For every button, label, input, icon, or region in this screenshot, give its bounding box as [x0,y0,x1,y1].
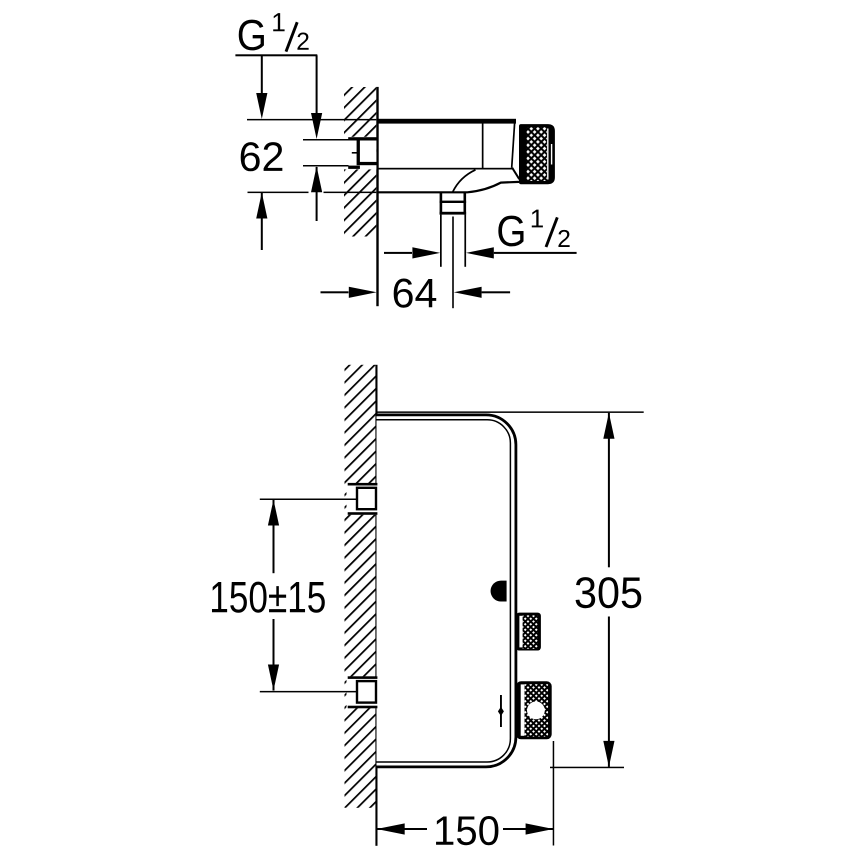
G1/2 top arrow stem 1 [261,55,263,93]
upper bracket box [357,488,376,509]
62 dim bottom extension line [303,165,349,167]
lower mounting bracket white mask [347,676,378,708]
62 arrowhead up [311,166,322,192]
body top bar [379,119,517,124]
150±15 top extension line [260,499,357,501]
G1/2 pipe dim: right arrowhead (left) [466,247,494,258]
G1/2 pipe dim: left arrow stem [384,252,412,254]
wall union bracket (top view) [340,137,377,170]
knob knurl area [527,127,547,181]
lower bracket box [357,681,376,703]
G1/2 top arrowhead 2 (down) [311,113,322,139]
wall hatching (top view) [344,87,376,237]
upper mounting bracket white mask [347,483,378,515]
305 top extension line [377,411,644,413]
64 dim: left arrow stem [321,291,349,293]
wall line (lower view) [375,365,377,846]
150 dim line right segment [503,828,553,830]
dimension text 62 [241,142,283,171]
extension line of body bottom (right part) [324,192,377,194]
G1/2 top arrowhead 1 (down) [256,93,267,119]
body lower face line [379,168,514,170]
150 arrowhead left [377,823,405,834]
bracket top flange [348,137,377,140]
extension line of body top [247,119,376,121]
wall hatching (lower view) [345,365,376,808]
64 dim: left arrowhead (right, at wall) [349,287,377,298]
G1/2 bottom label: superscript 1 [532,210,543,228]
64 dim: right arrowhead (left, at centerline) [454,287,482,298]
305 dim line upper segment [608,413,610,568]
outlet nut right wall [464,193,467,215]
mini arrow mark stem [500,695,502,727]
305 bottom extension line [550,767,624,769]
150 arrowhead right [526,823,554,834]
305 arrowhead down [603,741,614,767]
64 dim: right stem [482,291,511,293]
body bottom outline [379,182,520,192]
lower knob button circle [527,702,545,720]
outlet nut left wall [440,193,443,215]
G1/2 top label: subscript 2 [297,33,308,50]
upper bracket top flange [348,483,378,486]
G1/2 top label: fraction slash [286,22,297,51]
hose pipe left line [440,215,442,267]
lower bracket top flange [348,676,378,679]
bracket bottom bar right [357,162,377,165]
wall line (top view) [376,87,378,306]
62 arrow up (stem below bottom line) [316,167,318,221]
extension line of body bottom (left of arrow gap) [248,192,309,194]
305 arrowhead up [603,413,614,439]
dimension text 150±15 [212,582,325,613]
G1/2 top label: superscript 1 [273,13,284,31]
body front round edge curve [453,170,476,192]
dimension text 305 [576,577,642,608]
outlet mark (black D) [491,581,507,602]
G1/2 bottom label: G [498,216,523,247]
outlet nut mid bar [440,201,467,203]
G1/2 pipe dim: left arrowhead (right) [412,247,440,258]
dimension text 150 [436,816,498,845]
plate outer contour [377,415,516,767]
body-bottom arrowhead up [256,193,267,219]
upper select knob (front view) [516,613,541,651]
knob cap slit right [551,144,552,165]
body step to knob [512,168,519,179]
lower knob white gap [521,684,525,735]
body right edge [512,123,515,168]
150±15 arrowhead up [268,500,279,526]
outlet nut bottom bar [440,212,467,215]
pipe centerline [452,217,454,309]
G1/2 top arrow stem 2 [316,55,318,113]
G1/2 pipe dim: right stem / label underline [494,252,577,254]
dimension text 64 [394,279,437,308]
upper knob white gap [519,616,522,648]
G1/2 bottom label: subscript 2 [558,230,569,247]
150 dim line left segment [377,828,427,830]
G1/2 bottom label: fraction slash [546,217,557,247]
temperature knob (top view, knurled) [519,124,555,184]
lower bracket bottom flange [348,706,378,709]
G1/2 top label underline [235,54,317,56]
lower control knob (front view) [516,681,552,739]
lower knob knurl [525,684,549,736]
bracket web [357,140,360,162]
upper knob knurl [523,615,538,649]
body panel split line [482,123,484,168]
150±15 arrowhead down [268,665,279,691]
bracket center tick [352,152,358,154]
knob cap slit left [547,129,548,180]
plate inner contour [377,420,511,762]
150±15 bottom extension line [260,691,357,693]
305 dim line lower segment [608,617,610,767]
62 dim top extension line [303,139,349,141]
upper bracket bottom flange [348,512,378,515]
body-bottom arrow stem [261,193,263,250]
150 right extension line [553,741,555,846]
mini arrow mark diamond [498,707,504,716]
G1/2 top label: G [239,20,264,51]
150±15 dim line lower segment [273,619,275,691]
150±15 dim line upper segment [273,499,275,573]
hose pipe right line [464,215,466,267]
bracket bottom flange left [348,166,360,169]
